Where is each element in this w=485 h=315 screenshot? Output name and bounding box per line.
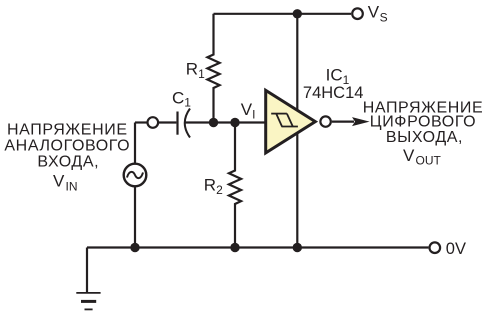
- svg-text:74HC14: 74HC14: [303, 84, 364, 102]
- svg-text:0V: 0V: [446, 240, 466, 258]
- svg-text:АНАЛОГОВОГО: АНАЛОГОВОГО: [4, 138, 130, 155]
- svg-text:ВЫХОДА,: ВЫХОДА,: [386, 129, 463, 146]
- svg-text:ВХОДА,: ВХОДА,: [37, 153, 99, 170]
- svg-text:НАПРЯЖЕНИЕ: НАПРЯЖЕНИЕ: [7, 122, 128, 139]
